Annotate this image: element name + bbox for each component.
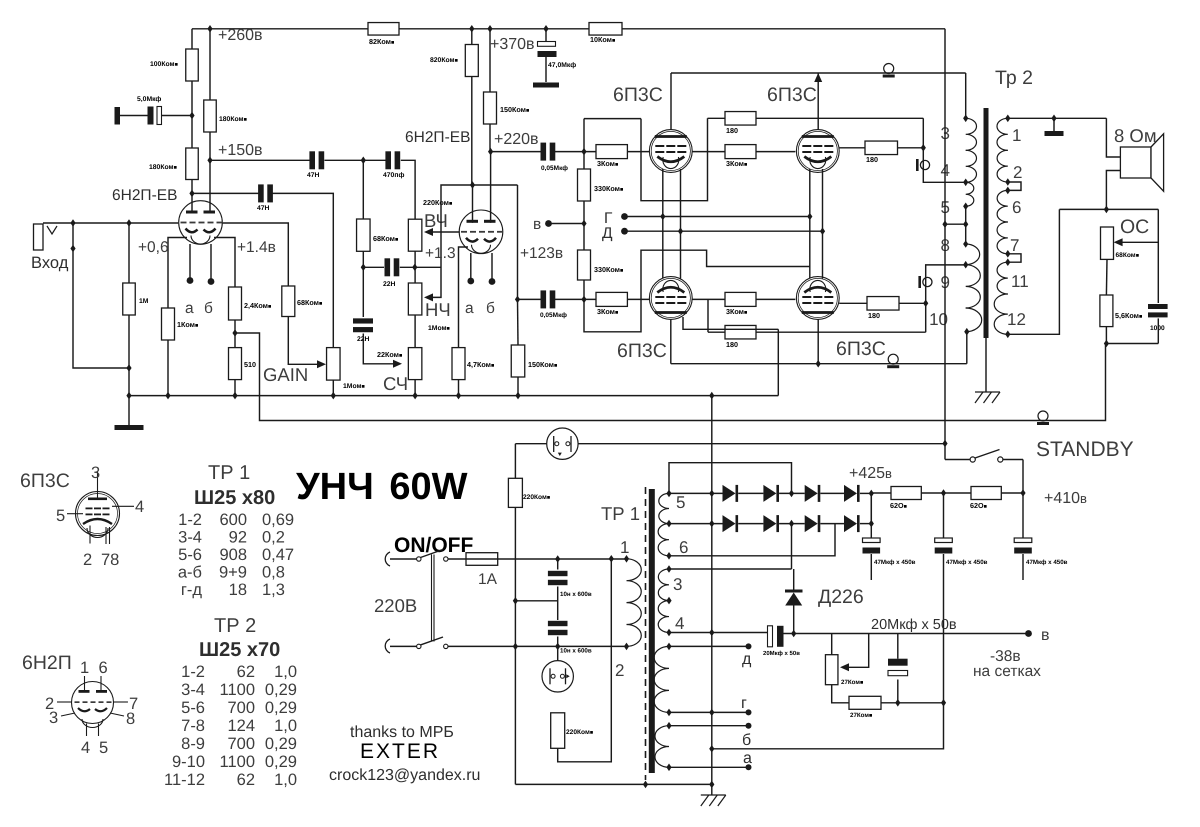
resistor 1М (grid leak): [123, 283, 136, 315]
node feedback tap junction: [189, 190, 194, 198]
wire 2,4Ком to 510: [234, 320, 236, 348]
wire input jack tip to grid: [43, 222, 178, 224]
wire 180-2 connections: [839, 147, 865, 149]
svg-text:47Мкф х 450в: 47Мкф х 450в: [874, 559, 916, 566]
resistor 1Ком (cathode a): [162, 308, 175, 340]
coil Тр2 primary section 9: [966, 265, 981, 308]
svg-text:27Ком■: 27Ком■: [850, 712, 872, 719]
svg-text:+370в: +370в: [490, 36, 535, 53]
node Тр1 tap 6 bottom: [666, 552, 671, 560]
svg-text:1: 1: [1012, 126, 1021, 145]
svg-text:11: 11: [1011, 272, 1029, 291]
svg-text:330Ком■: 330Ком■: [594, 184, 623, 193]
capacitor 10н х 600в (1): [548, 571, 568, 576]
svg-text:220В: 220В: [374, 595, 417, 616]
svg-text:100Ком■: 100Ком■: [150, 61, 178, 68]
resistor 82Ком (horizontal, top rail): [368, 23, 399, 36]
svg-text:6: 6: [99, 659, 108, 677]
svg-text:5,0Мкф: 5,0Мкф: [137, 96, 161, 103]
svg-text:0,29: 0,29: [265, 735, 297, 753]
svg-text:6: 6: [679, 538, 688, 557]
node rectifier row1 left: [709, 490, 714, 498]
svg-text:3-4: 3-4: [181, 681, 205, 699]
svg-text:12: 12: [1007, 310, 1026, 329]
diode D4: [844, 485, 857, 502]
node caps column bottom: [555, 643, 560, 651]
wire lamp to standby-column: [578, 443, 945, 445]
svg-text:180: 180: [866, 155, 878, 164]
wire Г heater wire: [625, 216, 810, 218]
lamp on anode rail: [884, 64, 894, 74]
node Тр1 tap г: [666, 709, 671, 717]
capacitor 20Мкф х 50в (bias 1): [768, 626, 773, 647]
heater terminal а (V2): [467, 278, 474, 285]
wire anode rail upper: [671, 72, 966, 74]
node 150Ком top: [487, 25, 492, 33]
wire 5-8 link: [965, 206, 967, 244]
node Тр1 tap 3-4 mid: [666, 597, 671, 605]
coil Тр2 secondary section 6: [997, 190, 1008, 222]
wire ОС pot to 5,6Ком: [1105, 259, 1108, 295]
resistor 10Ком (horizontal, top rail): [589, 23, 622, 36]
potentiometer GAIN 1Мом: [327, 348, 341, 381]
connector lamp (top): [547, 428, 578, 459]
pinout 6Н2П: [72, 682, 114, 724]
wire caps 10н column: [557, 559, 559, 570]
svg-text:7: 7: [1010, 236, 1019, 255]
node grid1 junction x584: [581, 148, 586, 156]
node 47,0Мкф junction: [543, 25, 548, 33]
wire cathode b tap to 2,4Ком: [214, 238, 235, 288]
svg-text:9-10: 9-10: [172, 753, 205, 771]
wire ground stem PSU: [711, 784, 713, 795]
wire 820Ком column: [471, 29, 473, 45]
terminal Д (heater feed): [621, 228, 628, 235]
wire bias winding top row: [669, 568, 792, 570]
node feedback junction: [1104, 340, 1109, 348]
wire а terminal: [669, 766, 746, 768]
svg-text:а: а: [185, 300, 194, 317]
wire 330Ком bias column: [583, 119, 585, 152]
node rectifier row1 mid: [789, 490, 794, 498]
diode D3: [805, 485, 818, 502]
node Тр1 HV center: [666, 520, 671, 528]
svg-text:0,05Мкф: 0,05Мкф: [541, 165, 568, 172]
wire НЧ wiper riser from 820Ком node: [432, 185, 473, 297]
node mains crossing taps: [513, 597, 518, 605]
svg-text:124: 124: [227, 717, 255, 735]
wire screen drop column lower: [926, 265, 966, 332]
coil Тр2 primary section 10: [966, 308, 982, 332]
ground (Тр2 core): [975, 392, 983, 403]
coil Тр1 secondary г (heater): [654, 646, 669, 712]
wire anode V4 riser: [817, 73, 819, 130]
heater terminal а (V1): [187, 277, 194, 284]
ground bar below 47Мкф: [533, 83, 559, 88]
resistor 3Ком (V3 grid): [596, 145, 627, 159]
coil Тр1 secondary 4 (bias): [658, 601, 669, 633]
wire +425в row: [871, 492, 891, 494]
node Тр1 tap б: [666, 722, 671, 730]
resistor 2,4Ком (cathode b): [229, 287, 242, 320]
coil Тр1 secondary а-б (heater): [655, 726, 669, 768]
wire filter cap 3 drop: [1022, 493, 1024, 539]
input jack: [34, 224, 44, 250]
resistor 62О (filter 1): [891, 487, 921, 500]
wire mains upper: [390, 558, 417, 560]
node 68Ком-2 junction: [361, 157, 366, 165]
tube V6 6П3С (lower right): [796, 277, 839, 320]
terminal б: [746, 723, 752, 729]
wire to speaker +: [1106, 118, 1120, 157]
svg-text:22Ком■: 22Ком■: [377, 350, 402, 359]
node screen junction lower: [923, 300, 928, 308]
wire anode-a V2: [472, 185, 474, 223]
svg-text:6Н2П-ЕВ: 6Н2П-ЕВ: [405, 129, 470, 146]
terminal в (bias out): [1025, 630, 1032, 637]
wire 180-4 connections: [839, 302, 867, 304]
wire GAIN to bus: [332, 380, 334, 396]
svg-text:220Ком■: 220Ком■: [423, 198, 452, 207]
node Тр2 tap 8 top: [963, 240, 968, 248]
coil Тр2 secondary section 2: [997, 150, 1008, 182]
svg-text:Вход: Вход: [31, 254, 69, 272]
coil Тр2 primary section 3: [966, 118, 977, 150]
svg-text:1100: 1100: [220, 681, 255, 699]
switch STANDBY: [945, 459, 970, 461]
diode Д226: [793, 569, 795, 590]
svg-text:1М: 1М: [139, 298, 149, 305]
node Г junctions: [660, 213, 665, 221]
svg-text:78: 78: [101, 551, 119, 569]
resistor 62О (filter 2): [971, 487, 1001, 500]
wire heater chain left pair: [662, 169, 664, 279]
resistor 180 (screen V4): [865, 141, 898, 155]
resistor 3Ком (V4 grid): [725, 145, 756, 159]
capacitor 22Н (horizontal row): [385, 258, 391, 276]
svg-text:92: 92: [229, 529, 247, 547]
svg-text:2: 2: [83, 551, 92, 569]
wire HV row1 feed: [669, 492, 723, 494]
svg-text:+1.3: +1.3: [425, 245, 456, 262]
wire lamp-chain column x515: [514, 444, 516, 479]
node screen junction upper: [921, 144, 926, 152]
node bias row ground-column junction: [709, 629, 714, 637]
svg-text:0,47: 0,47: [262, 546, 294, 564]
wire standby tie: [945, 223, 966, 225]
svg-text:а-б: а-б: [178, 564, 202, 582]
jack test point upper: [916, 159, 919, 171]
wire Д heater wire: [625, 230, 823, 232]
coil Тр2 primary section 5: [966, 182, 974, 206]
coil Тр1 secondary 3 (bias): [658, 569, 669, 601]
svg-text:820Ком■: 820Ком■: [430, 57, 458, 64]
svg-text:2: 2: [615, 661, 624, 680]
svg-text:600: 600: [219, 511, 247, 529]
tube V3 6П3С (upper left): [649, 130, 692, 173]
wire HV bypass riser: [669, 463, 792, 494]
tube V5 6П3С (lower left): [649, 277, 692, 320]
wire 22Н row: [363, 266, 384, 268]
terminal г: [746, 709, 752, 715]
wire ОС top row: [1059, 208, 1158, 210]
resistor 180 (screen V3): [725, 112, 756, 126]
svg-text:68Ком■: 68Ком■: [1116, 252, 1140, 259]
wire D2-D3: [779, 492, 805, 494]
svg-text:Д: Д: [602, 225, 613, 242]
svg-text:1,0: 1,0: [274, 717, 297, 735]
transformer Тр1 core dashed: [645, 487, 647, 780]
resistor 330Ком (upper): [578, 169, 591, 201]
wire jack sleeve to ground bus: [72, 223, 74, 249]
svg-text:7-8: 7-8: [181, 717, 205, 735]
resistor 68Ком (2): [357, 219, 371, 251]
wire 47Мкф drop: [545, 29, 547, 41]
node standby lamp-chain junction: [942, 440, 947, 448]
svg-text:0,69: 0,69: [262, 511, 294, 529]
svg-text:6П3С: 6П3С: [613, 84, 663, 106]
node PSU ground bottom: [709, 781, 714, 789]
wire в terminal: [549, 223, 585, 225]
wire б terminal: [669, 725, 746, 727]
transformer Тр1 core bar: [649, 489, 655, 773]
node Тр1 tap а: [666, 764, 671, 772]
svg-text:68Ком■: 68Ком■: [297, 298, 322, 307]
heater terminal б (V1): [208, 278, 215, 285]
wire bus ground stem: [128, 396, 130, 425]
svg-text:47Н: 47Н: [257, 205, 270, 212]
input terminal bar: [115, 107, 121, 125]
wire СЧ to bus: [414, 380, 416, 396]
wire screen drop column upper: [923, 118, 965, 182]
node rectifier row2 left: [709, 520, 714, 528]
wire mains lower: [390, 645, 417, 647]
wire cathode riser x778: [777, 329, 779, 395]
wire D3-D4: [820, 492, 844, 494]
node PSU ground top: [709, 392, 714, 400]
svg-text:6П3С: 6П3С: [20, 470, 70, 492]
wire 180-3 connections: [708, 331, 725, 333]
svg-text:ТР 1: ТР 1: [601, 503, 640, 524]
svg-text:+220в: +220в: [494, 131, 539, 148]
svg-text:г: г: [741, 695, 747, 712]
wire fuse to Тр1: [498, 558, 627, 560]
node bias return to ground: [709, 745, 714, 753]
wire lamp-chain top link: [515, 443, 547, 445]
svg-text:+260в: +260в: [218, 27, 263, 44]
svg-text:3: 3: [673, 575, 682, 594]
wire rows tie: [870, 493, 872, 523]
wire ВЧ wiper from tube grid: [432, 231, 460, 233]
wire Тр2 core ground stem: [985, 338, 987, 392]
svg-text:8: 8: [126, 710, 135, 728]
svg-text:6П3С: 6П3С: [617, 340, 667, 362]
wire 27Ком-2 to return: [881, 702, 944, 704]
wire PSU ground column: [711, 396, 713, 785]
svg-text:47Мкф х 450в: 47Мкф х 450в: [1026, 559, 1068, 566]
svg-text:6П3С: 6П3С: [836, 338, 886, 360]
wire heater legs V2: [470, 253, 472, 281]
resistor 150Ком (anode b load): [484, 92, 497, 124]
svg-text:6: 6: [1012, 198, 1021, 217]
node +370в junction: [469, 25, 474, 33]
wire 220Ком-2 bottom link: [558, 559, 612, 762]
svg-text:+150в: +150в: [218, 142, 263, 159]
svg-text:908: 908: [219, 546, 247, 564]
capacitor 10н х 600в (2): [548, 621, 568, 626]
coil Тр2 secondary section 7: [997, 222, 1008, 254]
node Д226 junction: [791, 630, 796, 638]
wire ОС left leg: [1008, 209, 1060, 334]
switch ON/OFF mechanical link: [431, 555, 433, 642]
potentiometer 27Ком: [825, 655, 838, 685]
svg-text:510: 510: [244, 360, 256, 369]
svg-text:+410в: +410в: [1044, 490, 1087, 507]
wire lower U-link grid drive: [584, 250, 810, 332]
wire filter cap 2 drop: [943, 493, 945, 539]
svg-text:б: б: [486, 300, 495, 317]
node Тр1 tap д: [666, 643, 671, 651]
svg-text:180: 180: [726, 340, 738, 349]
coil Тр2 secondary section 1: [997, 118, 1008, 150]
potentiometer НЧ 1Мом: [408, 283, 422, 315]
wire 3Ком-V4 connections: [692, 151, 725, 153]
transformer Тр1 primary: [624, 555, 629, 563]
wire grid leak column: [128, 223, 130, 283]
svg-text:а: а: [743, 750, 752, 767]
lamp on lower anode rail: [888, 354, 898, 364]
svg-text:27Ком■: 27Ком■: [841, 679, 863, 686]
svg-text:4: 4: [675, 614, 684, 633]
svg-text:+123в: +123в: [520, 245, 563, 262]
svg-text:0,2: 0,2: [262, 529, 285, 547]
wire 27Ком pot to 27Ком resistor: [832, 685, 849, 703]
wire г terminal: [669, 711, 746, 713]
svg-text:0,8: 0,8: [262, 564, 285, 582]
wire 180-1 connections: [708, 117, 726, 119]
heater terminal б (V2): [489, 278, 496, 285]
arrow anode V4 junction: [814, 73, 822, 82]
jack test point lower: [918, 276, 921, 288]
ground bar (main): [115, 425, 144, 430]
node grid2 row junction x517: [515, 296, 520, 304]
wire PSU bottom ground run: [515, 783, 711, 785]
capacitor 1000 (ОС): [1148, 304, 1168, 309]
resistor 150Ком (2): [511, 345, 525, 377]
wire 47Н feedback row: [192, 192, 259, 194]
svg-text:г-д: г-д: [181, 581, 203, 599]
svg-text:+1.4в: +1.4в: [237, 239, 276, 256]
svg-text:220Ком■: 220Ком■: [566, 729, 593, 736]
lamp on feedback wire: [1038, 411, 1048, 421]
resistor 3Ком (V6 grid): [725, 292, 756, 306]
node Д junctions: [678, 227, 683, 235]
svg-text:1Мом■: 1Мом■: [343, 383, 365, 390]
node Тр2 sec top: [1005, 115, 1010, 123]
svg-text:1,0: 1,0: [274, 663, 297, 681]
node jack sleeve: [70, 245, 75, 253]
node bias return junctions: [895, 699, 900, 707]
svg-text:82Ком■: 82Ком■: [369, 37, 394, 46]
svg-text:Ш25 х80: Ш25 х80: [194, 487, 275, 509]
capacitor 0,05Мкф (lower): [541, 290, 547, 308]
wire anode-a V2 to lower grids: [473, 184, 518, 186]
svg-text:47Н: 47Н: [307, 172, 320, 179]
node shield tap: [643, 781, 648, 789]
svg-text:330Ком■: 330Ком■: [594, 265, 623, 274]
wire anode rail drop to Тр2 winding 3: [965, 73, 967, 118]
ground bus (amplifier): [129, 395, 778, 397]
svg-text:150Ком■: 150Ком■: [528, 360, 557, 369]
svg-text:47Мкф х 450в: 47Мкф х 450в: [946, 559, 988, 566]
svg-text:Д226: Д226: [818, 586, 864, 608]
node Тр1 tap 4: [666, 629, 671, 637]
wire ОС right leg to wiper: [1122, 209, 1158, 242]
svg-text:2,4Ком■: 2,4Ком■: [244, 301, 271, 310]
resistor 5,6Ком: [1100, 295, 1113, 327]
svg-text:crock123@yandex.ru: crock123@yandex.ru: [329, 767, 480, 784]
terminal Г (heater feed): [621, 213, 628, 220]
diode D1: [723, 485, 736, 502]
svg-text:0,29: 0,29: [265, 753, 297, 771]
capacitor 0,05Мкф (upper): [541, 143, 547, 161]
ground bar (speaker): [1045, 131, 1064, 136]
node bias junction: [581, 220, 586, 228]
wire 150Ком-2 column: [517, 299, 520, 345]
connector lamp (bottom): [542, 661, 573, 692]
node speaker ground tap: [1051, 115, 1056, 123]
svg-text:3-4: 3-4: [178, 529, 202, 547]
wire heater chain right pair: [809, 169, 811, 279]
svg-text:700: 700: [227, 735, 255, 753]
svg-text:47,0Мкф: 47,0Мкф: [548, 62, 576, 69]
wire filter cap 1 drop: [870, 493, 872, 539]
capacitor 47Н (feedback): [258, 184, 264, 202]
wire standby column x945: [944, 29, 946, 460]
svg-text:5-6: 5-6: [178, 546, 202, 564]
resistor 3Ком (V5 grid): [596, 292, 627, 306]
wire lower anode rail to Тр2 winding 10: [671, 363, 967, 365]
wire speaker return: [1106, 171, 1120, 210]
svg-text:0,05Мкф: 0,05Мкф: [540, 312, 567, 319]
wire D7-D8: [820, 523, 844, 525]
capacitor 47Мкф х 450в (3): [1014, 538, 1032, 543]
coil Тр2 secondary section 12: [994, 294, 1008, 334]
svg-text:ВЧ: ВЧ: [424, 210, 448, 231]
svg-text:+425в: +425в: [849, 465, 892, 482]
node +260в junction: [207, 25, 212, 33]
node Тр2 tap 8/9: [963, 261, 968, 269]
wire anode V6 drop: [817, 320, 819, 364]
node jack tip: [70, 219, 75, 227]
svg-text:8 Ом: 8 Ом: [1114, 125, 1157, 146]
node Тр2 tap 3 top: [963, 115, 968, 123]
svg-text:GAIN: GAIN: [263, 364, 308, 385]
svg-text:STANDBY: STANDBY: [1036, 438, 1134, 461]
wire grid1 row (upper 6П3С pair): [491, 151, 541, 153]
diode D6: [763, 515, 776, 532]
svg-text:180Ком■: 180Ком■: [219, 116, 247, 123]
wire 68Ком-2 column: [362, 160, 364, 219]
svg-text:6Н2П: 6Н2П: [22, 652, 72, 674]
capacitor 47Мкф х 450в (1): [863, 538, 881, 543]
wire bias return loop to ground bus: [712, 703, 944, 749]
svg-text:18: 18: [229, 581, 247, 599]
capacitor 47Мкф х 450в (2): [935, 538, 953, 543]
svg-text:470пф: 470пф: [383, 172, 404, 179]
node top B+ rail wire: [192, 28, 368, 30]
svg-text:thanks to МРБ: thanks to МРБ: [350, 724, 454, 741]
